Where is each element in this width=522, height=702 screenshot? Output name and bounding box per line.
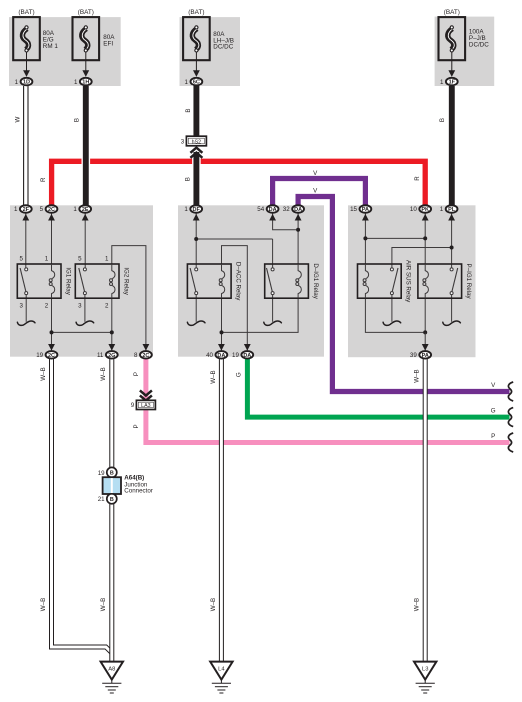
junction xyxy=(423,330,427,334)
junction block (fuse 80A LH-J/B) xyxy=(180,17,241,86)
connector 2C pin 5 xyxy=(40,205,58,213)
wire P-IG1 relay switch out xyxy=(451,295,453,322)
wire IG1 relay pin 3 xyxy=(25,295,27,322)
wire D-ACC relay coil to connector 40-DA xyxy=(221,298,223,350)
svg-text:1H: 1H xyxy=(82,80,89,86)
svg-text:2: 2 xyxy=(45,303,49,310)
wire branch DF to D-IG1 relay xyxy=(196,238,272,240)
svg-text:5: 5 xyxy=(78,256,82,263)
wire junction to connector 39-PA xyxy=(424,332,426,350)
junction block (fuse 100A P-J/B) xyxy=(435,17,495,86)
wire B (black) from 1H to 2E xyxy=(82,86,91,205)
svg-text:B: B xyxy=(439,118,446,122)
junction xyxy=(220,330,224,334)
svg-text:AIR SUS Relay: AIR SUS Relay xyxy=(405,260,412,303)
svg-text:19: 19 xyxy=(36,352,43,359)
svg-text:54: 54 xyxy=(257,206,264,213)
svg-text:40: 40 xyxy=(206,352,213,359)
svg-text:P: P xyxy=(491,433,495,440)
svg-text:PA: PA xyxy=(422,353,429,359)
svg-text:B: B xyxy=(185,108,192,112)
fusible link 80A EFI xyxy=(73,9,116,77)
svg-text:V: V xyxy=(313,188,318,195)
wire D-IG1 relay coil to junction xyxy=(222,298,299,332)
continuation mark V wire xyxy=(508,382,513,401)
connector 1F pin 1 xyxy=(440,78,458,86)
svg-text:DC/DC: DC/DC xyxy=(213,44,233,51)
svg-text:R: R xyxy=(414,176,421,181)
svg-text:1: 1 xyxy=(105,256,109,263)
ground L4 xyxy=(210,662,232,693)
svg-text:19: 19 xyxy=(232,352,239,359)
svg-text:1: 1 xyxy=(74,79,78,86)
connector DF pin 1 xyxy=(184,205,202,213)
svg-text:LA3: LA3 xyxy=(141,403,150,409)
svg-text:2C: 2C xyxy=(48,207,55,213)
svg-text:1: 1 xyxy=(440,206,444,213)
wire DF to D-ACC relay switch xyxy=(195,214,197,269)
svg-text:6C: 6C xyxy=(193,80,200,86)
to other circuit (IG1) xyxy=(17,321,35,325)
svg-text:DA: DA xyxy=(269,207,277,213)
fusible link 80A E/G RM 1 xyxy=(13,9,58,77)
fusible link 80A LH-J/B DC/DC xyxy=(183,9,234,77)
svg-text:P–IG1 Relay: P–IG1 Relay xyxy=(465,264,472,300)
wire D-IG1 relay switch out xyxy=(272,295,274,322)
svg-text:W–B: W–B xyxy=(40,367,47,380)
svg-text:DA: DA xyxy=(217,353,225,359)
svg-text:8: 8 xyxy=(134,352,138,359)
junction xyxy=(296,228,300,232)
connector hS2 pin 3 xyxy=(181,136,207,146)
svg-text:2C: 2C xyxy=(48,353,55,359)
arrows into bottom connectors xyxy=(48,344,55,351)
svg-text:PK: PK xyxy=(421,207,429,213)
relay box 1 (IG1/IG2 relays) xyxy=(10,205,153,356)
svg-text:39: 39 xyxy=(410,352,417,359)
relay D&#8211;IG1 Relay xyxy=(265,263,319,299)
connector DA pin 54 xyxy=(257,205,278,213)
junction xyxy=(50,330,54,334)
wire 10-PK to P-IG1 relay coil xyxy=(424,214,426,265)
connector 2E pin 1 xyxy=(73,205,91,213)
svg-text:2F: 2F xyxy=(23,207,30,213)
wire branch PL to AIR SUS relay switch xyxy=(392,248,452,269)
svg-text:B: B xyxy=(184,177,191,181)
wire W-B from 11-2G to ground A8 xyxy=(109,357,114,662)
wire W (white) from 1D to 2F xyxy=(23,86,29,205)
svg-text:1: 1 xyxy=(185,79,189,86)
wire V (violet) 32-DA to right edge xyxy=(298,197,509,392)
wire 2C to IG1 relay pin 1 xyxy=(51,214,53,265)
svg-text:1: 1 xyxy=(184,206,188,213)
svg-text:R: R xyxy=(40,177,47,182)
wire junction bar IG1-IG2 xyxy=(52,331,112,333)
svg-text:G: G xyxy=(236,372,243,377)
svg-text:W–B: W–B xyxy=(210,598,217,611)
svg-text:P: P xyxy=(133,424,140,428)
wire R (red) from 2C to PK xyxy=(52,161,426,206)
junction connector A64(B) xyxy=(98,467,153,503)
svg-text:L4: L4 xyxy=(218,667,225,673)
wire P (pink) from 8-2C through LA3 to right edge xyxy=(143,357,148,400)
connector 2C pin 8 xyxy=(134,351,152,359)
svg-text:1: 1 xyxy=(73,206,77,213)
svg-text:19: 19 xyxy=(98,470,105,477)
svg-text:V: V xyxy=(491,382,496,389)
svg-text:W–B: W–B xyxy=(100,367,107,380)
double arrow into LA3 xyxy=(140,390,152,395)
fusible link 100A P-J/B DC/DC xyxy=(439,9,490,77)
svg-text:Connector: Connector xyxy=(124,487,153,494)
svg-text:2G: 2G xyxy=(108,353,115,359)
wire W-B from 40-DA to ground L4 xyxy=(219,357,224,662)
svg-text:D–IG1 Relay: D–IG1 Relay xyxy=(312,263,319,299)
svg-text:5: 5 xyxy=(40,206,44,213)
svg-text:(BAT): (BAT) xyxy=(444,9,460,16)
connector LA3 pin 9 xyxy=(131,400,156,409)
svg-text:DA: DA xyxy=(294,207,302,213)
junction xyxy=(194,237,198,241)
svg-text:1: 1 xyxy=(440,79,444,86)
svg-text:2C: 2C xyxy=(142,353,149,359)
svg-text:(BAT): (BAT) xyxy=(188,9,204,16)
svg-text:D–ACC Relay: D–ACC Relay xyxy=(235,262,242,301)
ground L3 xyxy=(414,662,436,693)
svg-text:3: 3 xyxy=(19,303,23,310)
svg-text:EFI: EFI xyxy=(103,41,113,48)
relay AIR SUS Relay xyxy=(358,260,412,303)
svg-text:10: 10 xyxy=(410,206,417,213)
svg-text:DA: DA xyxy=(243,353,251,359)
wire 1-PL to P-IG1 relay switch xyxy=(451,214,453,269)
connector 2F pin 1 xyxy=(14,205,32,213)
svg-text:B: B xyxy=(73,118,80,122)
svg-text:3: 3 xyxy=(181,138,185,145)
svg-text:hS2: hS2 xyxy=(192,139,201,145)
svg-text:1D: 1D xyxy=(23,80,30,86)
svg-text:DC/DC: DC/DC xyxy=(469,42,489,49)
relay IG2 Relay xyxy=(75,256,129,310)
svg-text:11: 11 xyxy=(97,352,104,359)
wire B (black) from 6C to hS2 and to DF xyxy=(192,85,201,137)
junction xyxy=(363,236,367,240)
svg-text:IG2 Relay: IG2 Relay xyxy=(123,267,130,295)
wire to D-IG1 relay switch xyxy=(272,239,274,268)
svg-text:1: 1 xyxy=(15,79,19,86)
svg-text:RM 1: RM 1 xyxy=(43,43,59,50)
connector 1D pin 1 xyxy=(15,78,33,86)
relay box 2 (D-ACC/D-IG1 relays) xyxy=(178,205,324,356)
svg-text:1F: 1F xyxy=(449,80,456,86)
svg-text:G: G xyxy=(491,407,496,414)
svg-text:DF: DF xyxy=(193,207,201,213)
svg-text:9: 9 xyxy=(131,402,135,409)
relay P&#8211;IG1 Relay xyxy=(418,264,472,300)
svg-text:1: 1 xyxy=(14,206,18,213)
wire P-IG1 relay coil down xyxy=(424,298,426,332)
wire AIR SUS relay coil to junction xyxy=(365,298,425,332)
wire 2E to IG2 relay pin 5 xyxy=(84,214,86,269)
svg-text:32: 32 xyxy=(283,206,290,213)
svg-text:2: 2 xyxy=(105,303,109,310)
svg-text:3: 3 xyxy=(78,303,82,310)
svg-text:B: B xyxy=(110,471,114,477)
svg-text:PA: PA xyxy=(362,207,369,213)
junction xyxy=(423,236,427,240)
connector 2G pin 11 xyxy=(97,351,118,359)
svg-text:21: 21 xyxy=(98,496,105,503)
svg-text:A8: A8 xyxy=(108,667,115,673)
to other circuit (AIR SUS) xyxy=(383,321,401,325)
junction block (fuses 80A E/G RM1, 80A EFI) xyxy=(9,17,121,86)
svg-text:P: P xyxy=(133,372,140,376)
wire 32-DA to D-IG1 relay coil xyxy=(297,214,299,265)
wire junction bar PA-PK xyxy=(365,237,425,239)
svg-text:B: B xyxy=(110,497,114,503)
wire IG2 relay pin 2 to connector 11-2G xyxy=(111,298,113,350)
continuation mark G wire xyxy=(508,408,513,427)
to other circuit (P-IG1) xyxy=(443,321,461,325)
wire G (green) from 19-DA to right edge xyxy=(247,357,509,417)
wire 2F to IG1 relay pin 5 xyxy=(25,214,27,269)
wire IG1 relay pin 2 to connector 19-2C xyxy=(51,298,53,350)
to other circuit (D-ACC) xyxy=(187,321,205,325)
junction xyxy=(450,246,454,250)
svg-text:PL: PL xyxy=(448,207,456,213)
svg-text:W–B: W–B xyxy=(414,598,421,611)
wire IG2 relay pin 3 xyxy=(84,295,86,322)
relay box 3 (AIR SUS/P-IG1 relays) xyxy=(348,205,476,357)
wire W-B from 19-2C xyxy=(52,357,112,653)
connector PA pin 39 xyxy=(410,351,431,359)
continuation mark P wire xyxy=(508,433,513,452)
relay D&#8211;ACC Relay xyxy=(187,262,241,301)
relay IG1 Relay xyxy=(17,256,71,310)
connector 2C pin 19 xyxy=(36,351,57,359)
connector DA pin 19 xyxy=(232,351,253,359)
svg-text:2E: 2E xyxy=(82,207,89,213)
connector DA pin 32 xyxy=(283,205,304,213)
wire AIR SUS relay switch out xyxy=(391,295,393,322)
wire 54-DA to D-IG1 coil node xyxy=(273,214,299,230)
svg-text:W–B: W–B xyxy=(414,369,421,382)
connector PA pin 15 xyxy=(350,205,371,213)
svg-text:W–B: W–B xyxy=(210,370,217,383)
svg-text:L3: L3 xyxy=(422,667,428,673)
svg-text:1: 1 xyxy=(45,256,49,263)
wire D-ACC relay coil to connector 19-DA xyxy=(222,246,248,351)
junction xyxy=(110,330,114,334)
svg-text:W–B: W–B xyxy=(40,598,47,611)
svg-text:IG1 Relay: IG1 Relay xyxy=(65,267,72,295)
double arrow into hS2 xyxy=(190,148,202,153)
connector PK pin 10 xyxy=(410,205,431,213)
connector PL pin 1 xyxy=(440,205,458,213)
svg-text:5: 5 xyxy=(19,256,23,263)
wire V (violet) 54-DA to 15-PA xyxy=(273,179,366,207)
connector 6C pin 1 xyxy=(185,78,203,86)
to other circuit (D-IG1) xyxy=(264,321,282,325)
connector 1H pin 1 xyxy=(74,78,92,86)
svg-text:(BAT): (BAT) xyxy=(18,9,34,16)
svg-text:W–B: W–B xyxy=(100,598,107,611)
wire B (black) from 1F to PL xyxy=(447,86,456,205)
svg-text:15: 15 xyxy=(350,206,357,213)
wire D-ACC relay switch out xyxy=(195,295,197,322)
wire 15-PA to AIR SUS relay coil xyxy=(364,214,366,265)
svg-text:(BAT): (BAT) xyxy=(78,9,94,16)
to other circuit (IG2) xyxy=(76,321,94,325)
wire W-B from 39-PA to ground L3 xyxy=(423,357,428,662)
wire IG2 relay pin 1 to connector 8-2C xyxy=(112,246,146,351)
arrows into top connectors xyxy=(22,214,29,221)
svg-text:W: W xyxy=(15,117,22,123)
ground A8 xyxy=(101,662,123,693)
connector DA pin 40 xyxy=(206,351,227,359)
